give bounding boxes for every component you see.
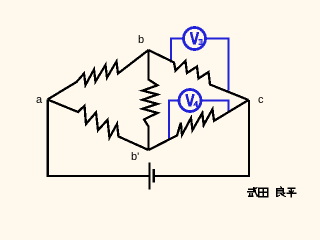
svg-text:b': b' <box>131 151 139 163</box>
svg-text:a: a <box>36 94 43 106</box>
svg-text:b: b <box>138 34 144 46</box>
svg-text:c: c <box>258 94 264 106</box>
